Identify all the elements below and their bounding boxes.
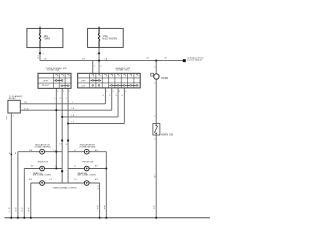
svg-text:HORN SW: HORN SW [161, 134, 174, 136]
svg-text:5: 5 [57, 91, 58, 93]
svg-text:FRONT LH: FRONT LH [38, 161, 49, 163]
svg-text:10A: 10A [44, 35, 49, 38]
svg-text:1 L: 1 L [74, 166, 76, 168]
svg-text:1: 1 [106, 91, 107, 93]
svg-text:RIGHT: RIGHT [42, 85, 50, 87]
svg-text:(COMB. SW): (COMB. SW) [47, 70, 60, 72]
svg-text:2: 2 [154, 67, 155, 69]
svg-text:RELAY: RELAY [9, 97, 17, 100]
svg-text:2: 2 [101, 65, 102, 67]
svg-text:7: 7 [69, 91, 70, 93]
svg-text:(RR COMB. LIGHT): (RR COMB. LIGHT) [77, 175, 96, 177]
svg-text:L: L [54, 98, 55, 100]
svg-text:TURN: TURN [43, 39, 50, 41]
svg-text:(COMB. METER): (COMB. METER) [79, 146, 95, 148]
svg-text:1: 1 [154, 139, 155, 141]
svg-text:HAZ-HORN: HAZ-HORN [102, 38, 117, 41]
svg-text:OFF: OFF [81, 80, 86, 82]
svg-text:L: L [72, 102, 73, 104]
svg-text:(COMB. METER): (COMB. METER) [35, 146, 51, 148]
svg-text:3: 3 [119, 91, 120, 93]
svg-text:TURN SIGNAL LIGHTS: TURN SIGNAL LIGHTS [53, 186, 78, 189]
svg-text:2: 2 [113, 91, 114, 93]
svg-text:6: 6 [63, 91, 64, 93]
svg-text:1 L: 1 L [53, 150, 55, 152]
svg-text:LEFT: LEFT [43, 80, 49, 82]
svg-text:2: 2 [97, 54, 98, 56]
svg-text:1: 1 [154, 83, 155, 85]
svg-text:ON: ON [82, 85, 86, 87]
svg-text:HORN: HORN [161, 78, 169, 80]
svg-text:FRONT RH: FRONT RH [83, 161, 94, 163]
svg-text:(COMB. SW): (COMB. SW) [116, 70, 129, 72]
svg-text:1: 1 [43, 53, 44, 55]
svg-text:3: 3 [13, 116, 14, 118]
svg-text:1 L: 1 L [55, 166, 57, 168]
svg-text:(RR COMB. LIGHT): (RR COMB. LIGHT) [33, 175, 52, 177]
svg-text:1 L: 1 L [74, 150, 76, 152]
svg-text:1: 1 [94, 65, 95, 67]
svg-text:2: 2 [154, 115, 155, 117]
svg-text:Control Module: Control Module [187, 58, 203, 61]
svg-text:4: 4 [125, 91, 126, 93]
